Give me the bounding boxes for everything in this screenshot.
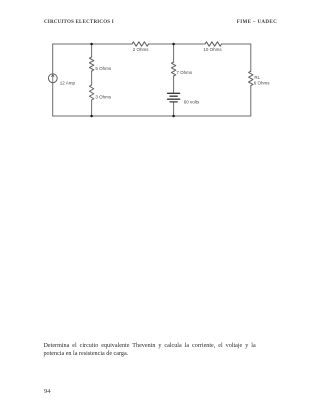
resistor 5 Ohms	[89, 57, 93, 71]
svg-text:5 Ohms: 5 Ohms	[95, 66, 112, 71]
label 6 Ohms	[254, 80, 271, 85]
svg-text:60 volts: 60 volts	[184, 100, 200, 105]
label 5 Ohms	[95, 66, 112, 71]
current source I1 12 Amp	[48, 74, 57, 83]
label 2 Ohms	[133, 47, 150, 52]
svg-text:10 Ohms: 10 Ohms	[203, 47, 222, 52]
header right	[237, 20, 277, 25]
label RL	[254, 75, 260, 80]
wire branch B1	[91, 44, 93, 116]
label 12 Amp	[60, 81, 76, 86]
node dot bottom B1	[90, 115, 93, 118]
problem statement paragraph	[44, 342, 256, 359]
page number	[44, 388, 51, 395]
label 10 Ohms	[203, 47, 222, 52]
resistor 7 Ohms	[171, 62, 175, 76]
label 7 Ohms	[176, 70, 193, 75]
svg-text:RL: RL	[254, 75, 260, 80]
node dot bottom B2	[172, 115, 175, 118]
wire right	[250, 44, 252, 116]
wire bottom	[53, 115, 251, 117]
svg-text:7 Ohms: 7 Ohms	[176, 70, 193, 75]
resistor 3 Ohms	[89, 85, 93, 100]
wire top	[53, 43, 251, 45]
resistor RL 6 Ohms	[249, 71, 253, 85]
svg-text:2 Ohms: 2 Ohms	[133, 47, 150, 52]
node dot top B1	[90, 43, 93, 46]
wire left	[52, 44, 54, 116]
battery V1 60 volts	[168, 93, 180, 102]
header left	[44, 20, 114, 25]
wire branch B2	[173, 44, 175, 116]
label 60 volts	[184, 100, 200, 105]
node dot top B2	[172, 43, 175, 46]
resistor 2 Ohms	[132, 42, 149, 46]
svg-text:12 Amp: 12 Amp	[60, 81, 76, 86]
label 3 Ohms	[95, 94, 112, 99]
svg-text:3 Ohms: 3 Ohms	[95, 94, 112, 99]
svg-text:6 Ohms: 6 Ohms	[254, 80, 271, 85]
resistor 10 Ohms	[205, 42, 222, 46]
